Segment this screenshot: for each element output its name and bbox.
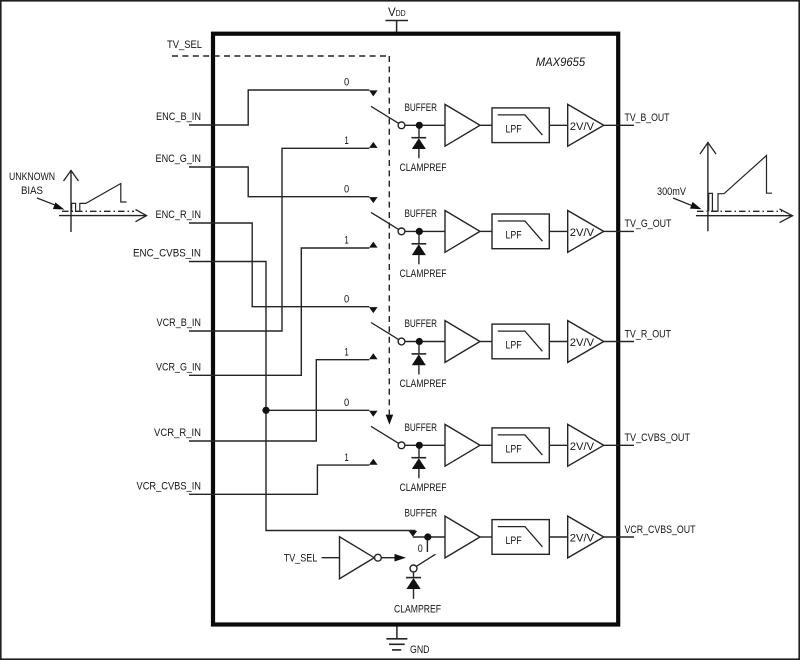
svg-text:0: 0 bbox=[344, 183, 349, 195]
svg-text:ENC_B_IN: ENC_B_IN bbox=[156, 111, 201, 123]
svg-text:TV_CVBS_OUT: TV_CVBS_OUT bbox=[625, 432, 691, 444]
svg-text:TV_SEL: TV_SEL bbox=[284, 552, 318, 564]
svg-text:CLAMPREF: CLAMPREF bbox=[400, 378, 447, 390]
svg-text:ENC_CVBS_IN: ENC_CVBS_IN bbox=[133, 248, 201, 260]
svg-text:MAX9655: MAX9655 bbox=[536, 55, 586, 69]
svg-text:TV_G_OUT: TV_G_OUT bbox=[625, 218, 672, 230]
svg-text:CLAMPREF: CLAMPREF bbox=[400, 162, 447, 174]
svg-text:1: 1 bbox=[344, 135, 348, 147]
svg-text:1: 1 bbox=[344, 346, 348, 358]
svg-text:0: 0 bbox=[418, 543, 423, 555]
svg-text:CLAMPREF: CLAMPREF bbox=[400, 482, 447, 494]
svg-text:BUFFER: BUFFER bbox=[405, 208, 438, 220]
svg-text:LPF: LPF bbox=[506, 230, 522, 242]
svg-text:CLAMPREF: CLAMPREF bbox=[400, 268, 447, 280]
svg-text:DD: DD bbox=[396, 9, 406, 18]
svg-text:BUFFER: BUFFER bbox=[405, 508, 438, 520]
svg-text:VCR_R_IN: VCR_R_IN bbox=[154, 427, 201, 439]
svg-text:1: 1 bbox=[344, 452, 348, 464]
svg-text:LPF: LPF bbox=[506, 444, 522, 456]
svg-text:LPF: LPF bbox=[506, 124, 522, 136]
svg-text:0: 0 bbox=[344, 293, 349, 305]
svg-text:1: 1 bbox=[344, 235, 348, 247]
svg-text:300mV: 300mV bbox=[657, 186, 687, 198]
svg-text:2V/V: 2V/V bbox=[570, 121, 595, 133]
svg-text:0: 0 bbox=[344, 397, 349, 409]
svg-text:ENC_G_IN: ENC_G_IN bbox=[156, 153, 202, 165]
svg-text:CLAMPREF: CLAMPREF bbox=[394, 603, 441, 615]
svg-text:LPF: LPF bbox=[506, 535, 522, 547]
svg-text:GND: GND bbox=[410, 644, 430, 656]
svg-text:0: 0 bbox=[344, 77, 349, 89]
svg-text:2V/V: 2V/V bbox=[570, 441, 595, 453]
svg-text:TV_SEL: TV_SEL bbox=[167, 39, 202, 51]
svg-text:2V/V: 2V/V bbox=[570, 533, 595, 545]
svg-text:BUFFER: BUFFER bbox=[405, 422, 438, 434]
svg-text:VCR_G_IN: VCR_G_IN bbox=[156, 361, 201, 373]
svg-text:BUFFER: BUFFER bbox=[405, 318, 438, 330]
svg-text:TV_R_OUT: TV_R_OUT bbox=[625, 328, 672, 340]
svg-text:2V/V: 2V/V bbox=[570, 337, 595, 349]
svg-text:BIAS: BIAS bbox=[21, 185, 43, 197]
svg-text:ENC_R_IN: ENC_R_IN bbox=[156, 209, 202, 221]
svg-text:TV_B_OUT: TV_B_OUT bbox=[625, 112, 670, 124]
svg-text:UNKNOWN: UNKNOWN bbox=[9, 171, 55, 183]
svg-text:VCR_B_IN: VCR_B_IN bbox=[157, 317, 202, 329]
svg-text:VCR_CVBS_IN: VCR_CVBS_IN bbox=[137, 480, 202, 492]
svg-text:2V/V: 2V/V bbox=[570, 227, 595, 239]
svg-text:LPF: LPF bbox=[506, 340, 522, 352]
svg-text:BUFFER: BUFFER bbox=[405, 102, 438, 114]
svg-text:VCR_CVBS_OUT: VCR_CVBS_OUT bbox=[625, 524, 696, 536]
